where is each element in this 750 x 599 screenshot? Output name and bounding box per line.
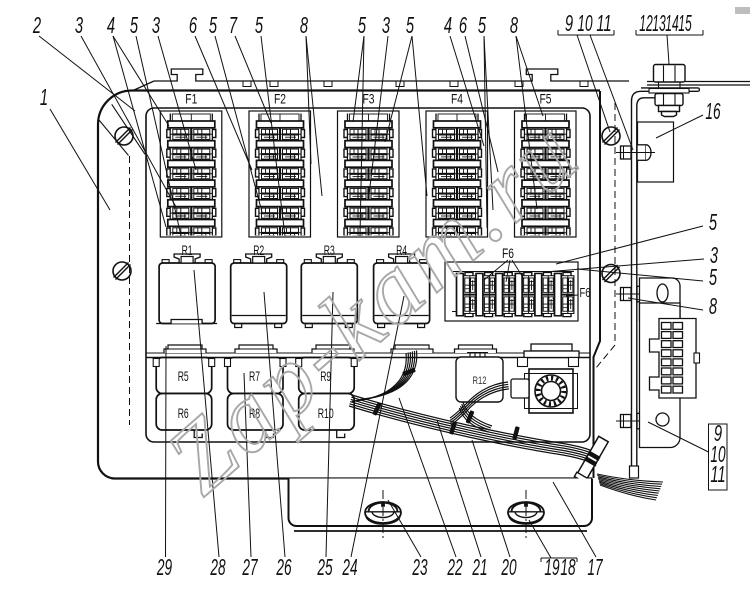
buzzer plate — [529, 369, 573, 413]
relay R3 — [301, 254, 357, 328]
svg-text:R12: R12 — [473, 375, 487, 387]
screw left-middle — [113, 262, 131, 280]
svg-text:F4: F4 — [451, 92, 463, 107]
callout box 9 10 11 (right) — [709, 424, 728, 490]
svg-text:28: 28 — [210, 554, 226, 580]
svg-text:29: 29 — [156, 554, 172, 580]
svg-text:R3: R3 — [324, 243, 335, 258]
bracket plate with oval hole — [640, 278, 681, 321]
fuses F4 — [433, 114, 482, 239]
bolt (items 12-15) — [649, 65, 689, 117]
buzzer bracket hat — [518, 344, 580, 367]
bracket vertical bar — [632, 88, 700, 478]
inner raised panel — [146, 108, 590, 442]
relay R2 — [231, 254, 287, 328]
harness from R12 — [463, 402, 492, 426]
lower sub-panel rail — [146, 352, 590, 354]
relay R1 — [156, 254, 217, 324]
svg-text:6: 6 — [189, 12, 197, 38]
connector pins — [662, 323, 672, 330]
svg-text:16: 16 — [705, 98, 720, 124]
main harness bundle — [352, 395, 599, 455]
connector body — [650, 319, 697, 399]
svg-text:R1: R1 — [182, 243, 193, 258]
svg-text:11: 11 — [596, 10, 611, 36]
wire tie — [449, 421, 457, 435]
wire tie — [512, 426, 520, 440]
harness exit fan — [597, 474, 663, 482]
watermark — [146, 100, 597, 514]
fuses F3 — [344, 114, 393, 239]
svg-text:8: 8 — [709, 293, 717, 319]
svg-text:23: 23 — [412, 554, 428, 580]
fuses F6 — [452, 271, 574, 273]
svg-text:27: 27 — [242, 554, 259, 580]
svg-text:26: 26 — [276, 554, 292, 580]
svg-text:F3: F3 — [363, 92, 375, 107]
svg-text:13: 13 — [652, 10, 666, 36]
svg-text:2: 2 — [32, 12, 41, 38]
svg-text:5: 5 — [478, 12, 486, 38]
bracket top plate lines — [647, 81, 750, 83]
svg-text:21: 21 — [472, 554, 488, 580]
svg-text:3: 3 — [75, 12, 83, 38]
item 16 plate — [638, 122, 674, 182]
bottom mounting flange — [289, 479, 593, 527]
svg-text:5: 5 — [709, 209, 717, 235]
bolt 9/10/11 bottom — [616, 413, 655, 429]
connector bracket plate — [640, 303, 681, 448]
bracket bar foot — [630, 466, 639, 478]
bolt 9/10/11 mid — [616, 286, 655, 302]
fuse bank F4 enclosure — [426, 111, 488, 237]
fuses F5 — [521, 114, 570, 239]
wire tie — [466, 410, 475, 424]
F6 label leaders — [484, 260, 578, 296]
top surface edge — [154, 69, 629, 81]
svg-text:24: 24 — [342, 554, 358, 580]
svg-text:F6: F6 — [580, 285, 591, 300]
relay pair R9/R10 — [296, 358, 358, 438]
svg-text:20: 20 — [501, 554, 517, 580]
svg-text:15: 15 — [678, 10, 692, 36]
svg-text:F1: F1 — [185, 92, 197, 107]
svg-text:F2: F2 — [274, 92, 286, 107]
wire tie — [402, 368, 416, 377]
svg-text:9: 9 — [565, 10, 573, 36]
svg-text:12: 12 — [639, 10, 653, 36]
harness exit sleeve — [574, 436, 609, 483]
mounting tab above R9 — [312, 345, 354, 353]
hidden edge dashed — [596, 103, 615, 368]
svg-text:5: 5 — [406, 12, 414, 38]
fuse box outer housing — [98, 91, 600, 479]
relay R4 — [374, 254, 430, 328]
harness from buzzer connector — [450, 382, 508, 418]
mounting tab above R7 — [235, 345, 277, 353]
svg-text:14: 14 — [665, 10, 679, 36]
svg-text:3: 3 — [382, 12, 390, 38]
buzzer rings — [535, 375, 567, 407]
left chamfer edges — [112, 104, 145, 154]
grommet left — [365, 490, 401, 538]
svg-text:3: 3 — [152, 12, 160, 38]
relay pair R7/R8 — [225, 358, 287, 438]
svg-text:5: 5 — [358, 12, 366, 38]
mounting tab above R5 — [164, 345, 206, 353]
relay R12 — [456, 352, 503, 402]
grommet right — [508, 490, 544, 538]
fuse bank F3 enclosure — [338, 111, 400, 237]
svg-text:5: 5 — [209, 12, 217, 38]
bolt 9/10/11 top — [616, 145, 655, 161]
svg-text:7: 7 — [229, 12, 238, 38]
fuse bank F5 enclosure — [515, 111, 577, 237]
svg-text:11: 11 — [710, 461, 725, 487]
svg-text:R5: R5 — [178, 369, 189, 384]
svg-text:8: 8 — [300, 12, 308, 38]
fuse bank F2 enclosure — [249, 111, 311, 237]
mounting tab above R12 — [455, 345, 497, 353]
svg-text:5: 5 — [130, 12, 138, 38]
mounting tab above wires — [391, 345, 433, 353]
svg-text:22: 22 — [447, 554, 463, 580]
svg-text:8: 8 — [510, 12, 518, 38]
svg-text:25: 25 — [317, 554, 333, 580]
svg-text:F5: F5 — [540, 92, 552, 107]
svg-text:6: 6 — [459, 12, 467, 38]
svg-text:10: 10 — [577, 10, 592, 36]
fuses F1 — [167, 114, 216, 239]
fuse holder F6 enclosure — [445, 262, 578, 321]
screw right-top — [602, 127, 620, 145]
svg-text:17: 17 — [587, 554, 603, 580]
relay pair R5/R6 — [153, 358, 215, 438]
svg-text:5: 5 — [255, 12, 263, 38]
screw right-middle — [602, 265, 620, 283]
fuse bank F1 enclosure — [160, 111, 222, 237]
wire tie — [372, 402, 381, 416]
fuses F2 — [256, 114, 305, 239]
buzzer connector — [511, 379, 529, 398]
svg-text:5: 5 — [709, 264, 717, 290]
screw top-left — [115, 127, 133, 145]
svg-text:1: 1 — [40, 84, 48, 110]
harness bundle from tab — [352, 353, 406, 402]
svg-text:R2: R2 — [253, 243, 264, 258]
svg-text:4: 4 — [107, 12, 115, 38]
svg-text:4: 4 — [444, 12, 452, 38]
